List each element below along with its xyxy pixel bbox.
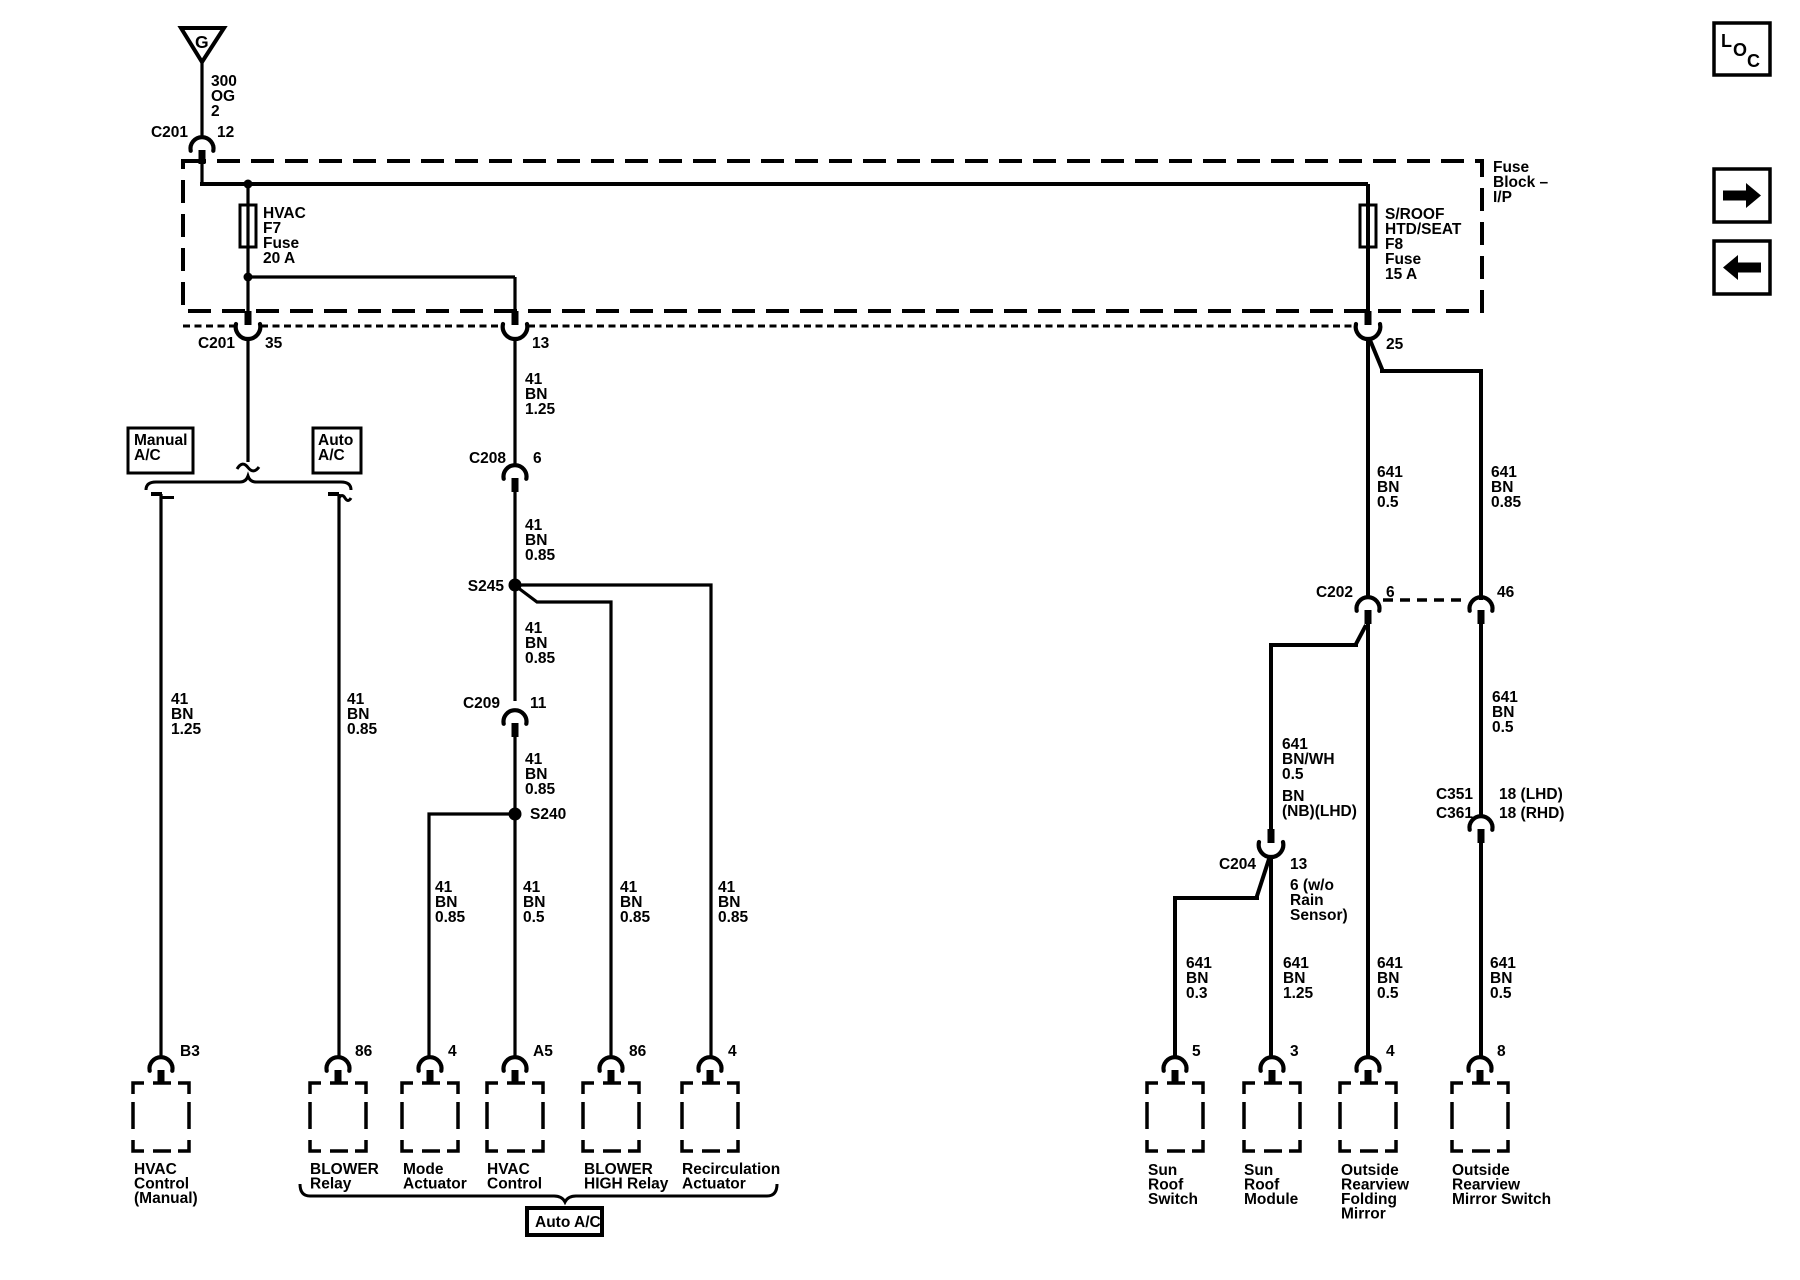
svg-text:0.5: 0.5 bbox=[1492, 719, 1514, 736]
svg-text:6: 6 bbox=[533, 450, 542, 467]
svg-text:G: G bbox=[195, 32, 209, 52]
svg-text:11: 11 bbox=[530, 695, 547, 712]
svg-text:A5: A5 bbox=[533, 1043, 553, 1060]
svg-text:8: 8 bbox=[1497, 1043, 1506, 1060]
svg-text:0.85: 0.85 bbox=[718, 909, 749, 926]
svg-text:C208: C208 bbox=[469, 450, 506, 467]
svg-text:0.85: 0.85 bbox=[525, 650, 556, 667]
svg-text:86: 86 bbox=[355, 1043, 373, 1060]
svg-text:Actuator: Actuator bbox=[403, 1176, 467, 1193]
svg-text:0.85: 0.85 bbox=[1491, 494, 1522, 511]
svg-text:C: C bbox=[1747, 51, 1760, 71]
svg-text:Mirror Switch: Mirror Switch bbox=[1452, 1191, 1551, 1208]
svg-text:0.85: 0.85 bbox=[347, 721, 378, 738]
svg-text:35: 35 bbox=[265, 335, 283, 352]
svg-text:O: O bbox=[1733, 40, 1747, 60]
svg-text:S245: S245 bbox=[468, 578, 505, 595]
svg-text:Module: Module bbox=[1244, 1191, 1299, 1208]
svg-text:46: 46 bbox=[1497, 584, 1515, 601]
svg-text:0.5: 0.5 bbox=[1282, 766, 1304, 783]
svg-text:86: 86 bbox=[629, 1043, 647, 1060]
svg-text:12: 12 bbox=[217, 124, 234, 141]
svg-text:15 A: 15 A bbox=[1385, 266, 1417, 283]
svg-text:1.25: 1.25 bbox=[1283, 985, 1314, 1002]
svg-text:C209: C209 bbox=[463, 695, 500, 712]
svg-text:0.5: 0.5 bbox=[1490, 985, 1512, 1002]
svg-text:Sensor): Sensor) bbox=[1290, 907, 1348, 924]
svg-text:Auto A/C: Auto A/C bbox=[535, 1214, 601, 1231]
svg-text:I/P: I/P bbox=[1493, 189, 1512, 206]
svg-text:C202: C202 bbox=[1316, 584, 1353, 601]
svg-text:S240: S240 bbox=[530, 806, 566, 823]
svg-text:(NB)(LHD): (NB)(LHD) bbox=[1282, 803, 1357, 820]
svg-text:HIGH Relay: HIGH Relay bbox=[584, 1176, 669, 1193]
svg-text:0.5: 0.5 bbox=[1377, 985, 1399, 1002]
svg-text:A/C: A/C bbox=[134, 447, 161, 464]
svg-text:2: 2 bbox=[211, 103, 220, 120]
svg-text:0.3: 0.3 bbox=[1186, 985, 1208, 1002]
svg-text:0.85: 0.85 bbox=[525, 547, 556, 564]
svg-text:4: 4 bbox=[1386, 1043, 1395, 1060]
svg-text:18 (RHD): 18 (RHD) bbox=[1499, 805, 1564, 822]
svg-text:20 A: 20 A bbox=[263, 250, 295, 267]
svg-text:C204: C204 bbox=[1219, 856, 1256, 873]
svg-text:18 (LHD): 18 (LHD) bbox=[1499, 786, 1563, 803]
svg-text:B3: B3 bbox=[180, 1043, 200, 1060]
svg-text:Actuator: Actuator bbox=[682, 1176, 746, 1193]
svg-text:0.5: 0.5 bbox=[1377, 494, 1399, 511]
svg-text:4: 4 bbox=[728, 1043, 737, 1060]
svg-text:C201: C201 bbox=[198, 335, 235, 352]
svg-text:C351: C351 bbox=[1436, 786, 1473, 803]
svg-text:13: 13 bbox=[1290, 856, 1308, 873]
svg-text:1.25: 1.25 bbox=[525, 401, 556, 418]
svg-text:0.85: 0.85 bbox=[620, 909, 651, 926]
svg-text:5: 5 bbox=[1192, 1043, 1201, 1060]
svg-text:Relay: Relay bbox=[310, 1176, 352, 1193]
svg-text:4: 4 bbox=[448, 1043, 457, 1060]
svg-text:0.85: 0.85 bbox=[435, 909, 466, 926]
svg-text:0.5: 0.5 bbox=[523, 909, 545, 926]
svg-text:Mirror: Mirror bbox=[1341, 1206, 1386, 1223]
svg-text:C201: C201 bbox=[151, 124, 188, 141]
svg-text:Control: Control bbox=[487, 1176, 542, 1193]
svg-text:Switch: Switch bbox=[1148, 1191, 1198, 1208]
svg-text:25: 25 bbox=[1386, 336, 1404, 353]
svg-text:1.25: 1.25 bbox=[171, 721, 202, 738]
svg-text:0.85: 0.85 bbox=[525, 781, 556, 798]
svg-text:L: L bbox=[1721, 31, 1732, 51]
svg-text:A/C: A/C bbox=[318, 447, 345, 464]
svg-text:C361: C361 bbox=[1436, 805, 1473, 822]
svg-text:3: 3 bbox=[1290, 1043, 1299, 1060]
svg-text:13: 13 bbox=[532, 335, 550, 352]
svg-text:(Manual): (Manual) bbox=[134, 1190, 198, 1207]
